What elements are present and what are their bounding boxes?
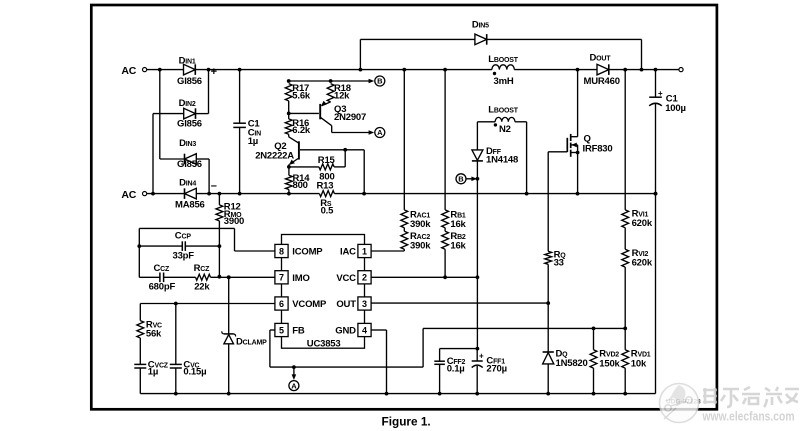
wire VCOMP pin 6 <box>140 302 275 306</box>
wire DOUT to output <box>609 68 679 72</box>
svg-text:–: – <box>211 180 217 192</box>
svg-text:0.5: 0.5 <box>321 205 335 216</box>
svg-text:OUT: OUT <box>336 299 356 310</box>
wire ground bus <box>140 393 655 395</box>
diode DCLAMP <box>222 275 267 395</box>
svg-text:UC3853: UC3853 <box>307 338 341 349</box>
resistor RVC 56k <box>137 304 162 340</box>
resistor R12 RMO 3900 <box>216 194 244 279</box>
transistor Q2 2N2222A <box>255 137 299 167</box>
wire AC2 to DIN4 <box>147 193 185 195</box>
inductor LBOOST <box>488 54 518 87</box>
wire N2 left leg <box>476 122 478 150</box>
wire rectifier + rail <box>158 68 492 72</box>
svg-text:VCC: VCC <box>336 273 356 284</box>
capacitor CFF2 0.1u <box>434 349 465 396</box>
svg-text:390k: 390k <box>410 240 431 251</box>
svg-text:+: + <box>658 89 663 98</box>
wire DIN3 anode <box>196 159 211 196</box>
svg-text:N2: N2 <box>499 124 511 135</box>
svg-text:270µ: 270µ <box>486 363 507 374</box>
svg-text:IRF830: IRF830 <box>583 143 613 154</box>
svg-text:GND: GND <box>335 326 356 337</box>
wire right rail <box>655 194 657 394</box>
resistor R15 800 <box>318 155 336 183</box>
wire DIN2 row <box>153 113 184 115</box>
wire RAC drop <box>403 70 405 210</box>
resistor RCZ 22k <box>194 263 211 292</box>
wire FB pin 5 <box>270 330 423 369</box>
svg-text:12k: 12k <box>334 91 350 102</box>
wire DFF cathode down <box>476 162 480 351</box>
diode DIN4 <box>175 177 205 210</box>
wire node A rail <box>332 132 370 134</box>
svg-text:B: B <box>377 77 383 86</box>
resistor RVI2 620k <box>622 248 653 268</box>
capacitor CVC 0.15u <box>170 304 207 396</box>
wire RQ to OUT <box>546 264 550 305</box>
wire DQ to ground <box>546 364 550 396</box>
wire DIN2 cathode <box>196 113 209 115</box>
svg-text:3mH: 3mH <box>494 76 514 87</box>
svg-text:680pF: 680pF <box>149 281 176 292</box>
wire R17 to base <box>287 101 291 115</box>
svg-text:1: 1 <box>362 246 367 256</box>
wire AC2 riser <box>151 114 155 196</box>
resistor R17 5.6k <box>285 83 311 101</box>
svg-text:5.6k: 5.6k <box>292 91 311 102</box>
wire Q3 base <box>289 112 319 114</box>
svg-text:+: + <box>211 66 217 78</box>
wire AC1 to DIN1 <box>147 69 184 71</box>
resistor RVI1 620k <box>622 209 653 230</box>
svg-text:6.2k: 6.2k <box>292 125 311 136</box>
svg-text:AC: AC <box>121 65 136 77</box>
transistor Q3 2N2907 <box>320 101 366 133</box>
wire OUT pin 3 <box>371 302 548 304</box>
svg-text:7: 7 <box>279 273 284 283</box>
node A <box>369 128 385 138</box>
wire FB riser <box>422 328 424 367</box>
wire FB sense line <box>423 327 625 329</box>
wire RVI1 to RVI2 <box>624 228 626 250</box>
wire Q2 base <box>300 148 364 152</box>
svg-text:620k: 620k <box>632 218 653 229</box>
wire RVI2 to FB line <box>623 267 627 330</box>
resistor RAC2 390k <box>401 228 431 252</box>
wire ICOMP pin 8 <box>139 228 275 251</box>
wire GND pin 4 <box>371 330 388 396</box>
svg-text:150k: 150k <box>599 358 620 369</box>
resistor R16 6.2k <box>285 113 311 136</box>
svg-text:FB: FB <box>292 326 305 337</box>
svg-text:6: 6 <box>279 299 284 309</box>
svg-text:56k: 56k <box>146 329 162 340</box>
node A lower <box>289 367 299 391</box>
svg-text:2N2907: 2N2907 <box>334 112 366 123</box>
svg-text:100µ: 100µ <box>665 103 686 114</box>
svg-text:GI856: GI856 <box>177 76 202 87</box>
label - output <box>211 180 217 192</box>
label + output <box>211 66 217 78</box>
svg-text:GI856: GI856 <box>177 119 202 130</box>
resistor R18 12k <box>327 83 351 102</box>
AC input terminal bottom <box>121 189 146 201</box>
wire return rail right <box>334 192 657 196</box>
wire CFF top jog <box>440 348 478 350</box>
wire DIN5 branch right <box>487 39 642 69</box>
svg-text:8: 8 <box>279 246 284 256</box>
svg-text:16k: 16k <box>450 219 466 230</box>
svg-text:620k: 620k <box>632 258 653 269</box>
svg-text:2: 2 <box>362 273 367 283</box>
diode DIN3 <box>177 138 202 170</box>
wire RAC2 to IAC <box>371 249 404 251</box>
svg-text:16k: 16k <box>450 240 466 251</box>
border frame <box>91 5 717 409</box>
resistor RB2 16k <box>442 228 467 252</box>
diode DIN2 <box>177 98 202 130</box>
resistor RQ 33 <box>545 249 566 268</box>
wire RVI drop <box>624 70 626 210</box>
svg-text:www.elecfans.com: www.elecfans.com <box>702 408 795 423</box>
capacitor CCP 33pF <box>139 231 219 262</box>
svg-text:2N2222A: 2N2222A <box>255 150 294 161</box>
svg-text:0.1µ: 0.1µ <box>447 364 465 375</box>
wire return rail left <box>196 192 319 196</box>
svg-text:10k: 10k <box>631 358 647 369</box>
wire comp left leg <box>137 228 141 277</box>
capacitor CCZ 680pF <box>139 263 195 292</box>
svg-text:390k: 390k <box>410 219 431 230</box>
resistor RAC1 390k <box>401 209 431 230</box>
wire OUT junction down <box>547 303 549 352</box>
wire gate riser <box>547 152 549 252</box>
label UDG number <box>666 399 701 406</box>
output terminal <box>679 68 683 72</box>
capacitor CFF1 270u <box>472 349 507 396</box>
wire RB drop <box>444 70 446 210</box>
wire LBOOST to DOUT <box>514 68 597 72</box>
transistor Q IRF830 <box>567 70 612 194</box>
svg-text:A: A <box>291 381 297 390</box>
wire AC1 drop <box>160 70 185 159</box>
svg-text:3: 3 <box>362 299 367 309</box>
diode DIN1 <box>177 56 202 88</box>
wire N2 right leg <box>526 122 528 194</box>
wire IMO pin 7 <box>211 275 275 279</box>
svg-text:33pF: 33pF <box>173 251 195 262</box>
svg-text:800: 800 <box>293 180 308 191</box>
svg-text:0.15µ: 0.15µ <box>183 367 206 378</box>
svg-text:5: 5 <box>279 325 284 335</box>
wire DIN2 cathode riser <box>208 70 210 114</box>
svg-text:800: 800 <box>319 172 334 183</box>
svg-text:3900: 3900 <box>224 216 244 227</box>
svg-text:ICOMP: ICOMP <box>292 247 323 258</box>
svg-text:IAC: IAC <box>340 247 356 258</box>
svg-text:MA856: MA856 <box>175 200 205 211</box>
svg-text:GI856: GI856 <box>177 159 202 170</box>
capacitor C1 100u <box>649 70 686 196</box>
wire VCC pin 2 <box>371 276 477 278</box>
diode DIN5 <box>472 19 489 44</box>
diode DQ 1N5820 <box>543 348 588 369</box>
wire Q2 emitter node <box>287 165 319 169</box>
wire node B rail <box>287 79 369 83</box>
inductor LBOOST N2 <box>477 105 526 136</box>
node B <box>369 76 385 86</box>
svg-text:R15: R15 <box>318 155 336 166</box>
wire RB2 to VCC <box>443 249 447 279</box>
svg-text:4: 4 <box>362 325 367 335</box>
capacitor CVCZ 1u <box>134 338 168 394</box>
svg-text:VCOMP: VCOMP <box>292 299 327 310</box>
diode DOUT <box>584 52 620 87</box>
wire DIN5 branch left <box>360 39 475 69</box>
wire gate lead <box>548 151 567 153</box>
wire base to rail <box>363 150 365 194</box>
resistor R14 800 <box>286 167 311 194</box>
resistor R13/Rs 0.5 <box>317 180 335 216</box>
svg-text:IMO: IMO <box>292 273 309 284</box>
caption Figure 1. <box>382 414 431 428</box>
svg-text:A: A <box>377 128 383 137</box>
svg-text:1µ: 1µ <box>248 136 258 147</box>
svg-text:Figure 1.: Figure 1. <box>382 414 431 428</box>
svg-text:1µ: 1µ <box>148 367 158 378</box>
resistor RVD1 10k <box>622 328 651 395</box>
resistor RVD2 150k <box>590 327 620 396</box>
wire R15 to base <box>334 150 345 167</box>
AC input terminal top <box>121 65 146 77</box>
svg-text:22k: 22k <box>194 281 210 292</box>
svg-text:AC: AC <box>121 189 136 201</box>
svg-text:B: B <box>458 175 464 184</box>
svg-text:MUR460: MUR460 <box>584 76 620 87</box>
svg-text:33: 33 <box>554 258 564 269</box>
svg-text:+: + <box>479 351 484 360</box>
op-amp U1 UC3853 <box>275 235 371 350</box>
diode DFF 1N4148 <box>472 146 518 165</box>
capacitor C1 CIN <box>233 70 261 194</box>
resistor RB1 16k <box>442 209 467 230</box>
node B lower <box>456 174 477 184</box>
svg-text:1N4148: 1N4148 <box>486 155 518 166</box>
svg-text:1N5820: 1N5820 <box>556 358 588 369</box>
